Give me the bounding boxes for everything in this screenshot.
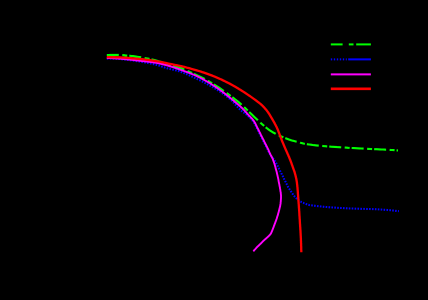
green dashed curve [107,55,398,150]
legend sample magenta [331,73,371,75]
red curve [107,57,301,252]
legend sample blue dotted [331,58,371,60]
blue dotted curve [107,59,399,212]
magenta curve [107,58,281,251]
legend sample green dashed [331,43,371,45]
legend sample red [331,88,371,91]
